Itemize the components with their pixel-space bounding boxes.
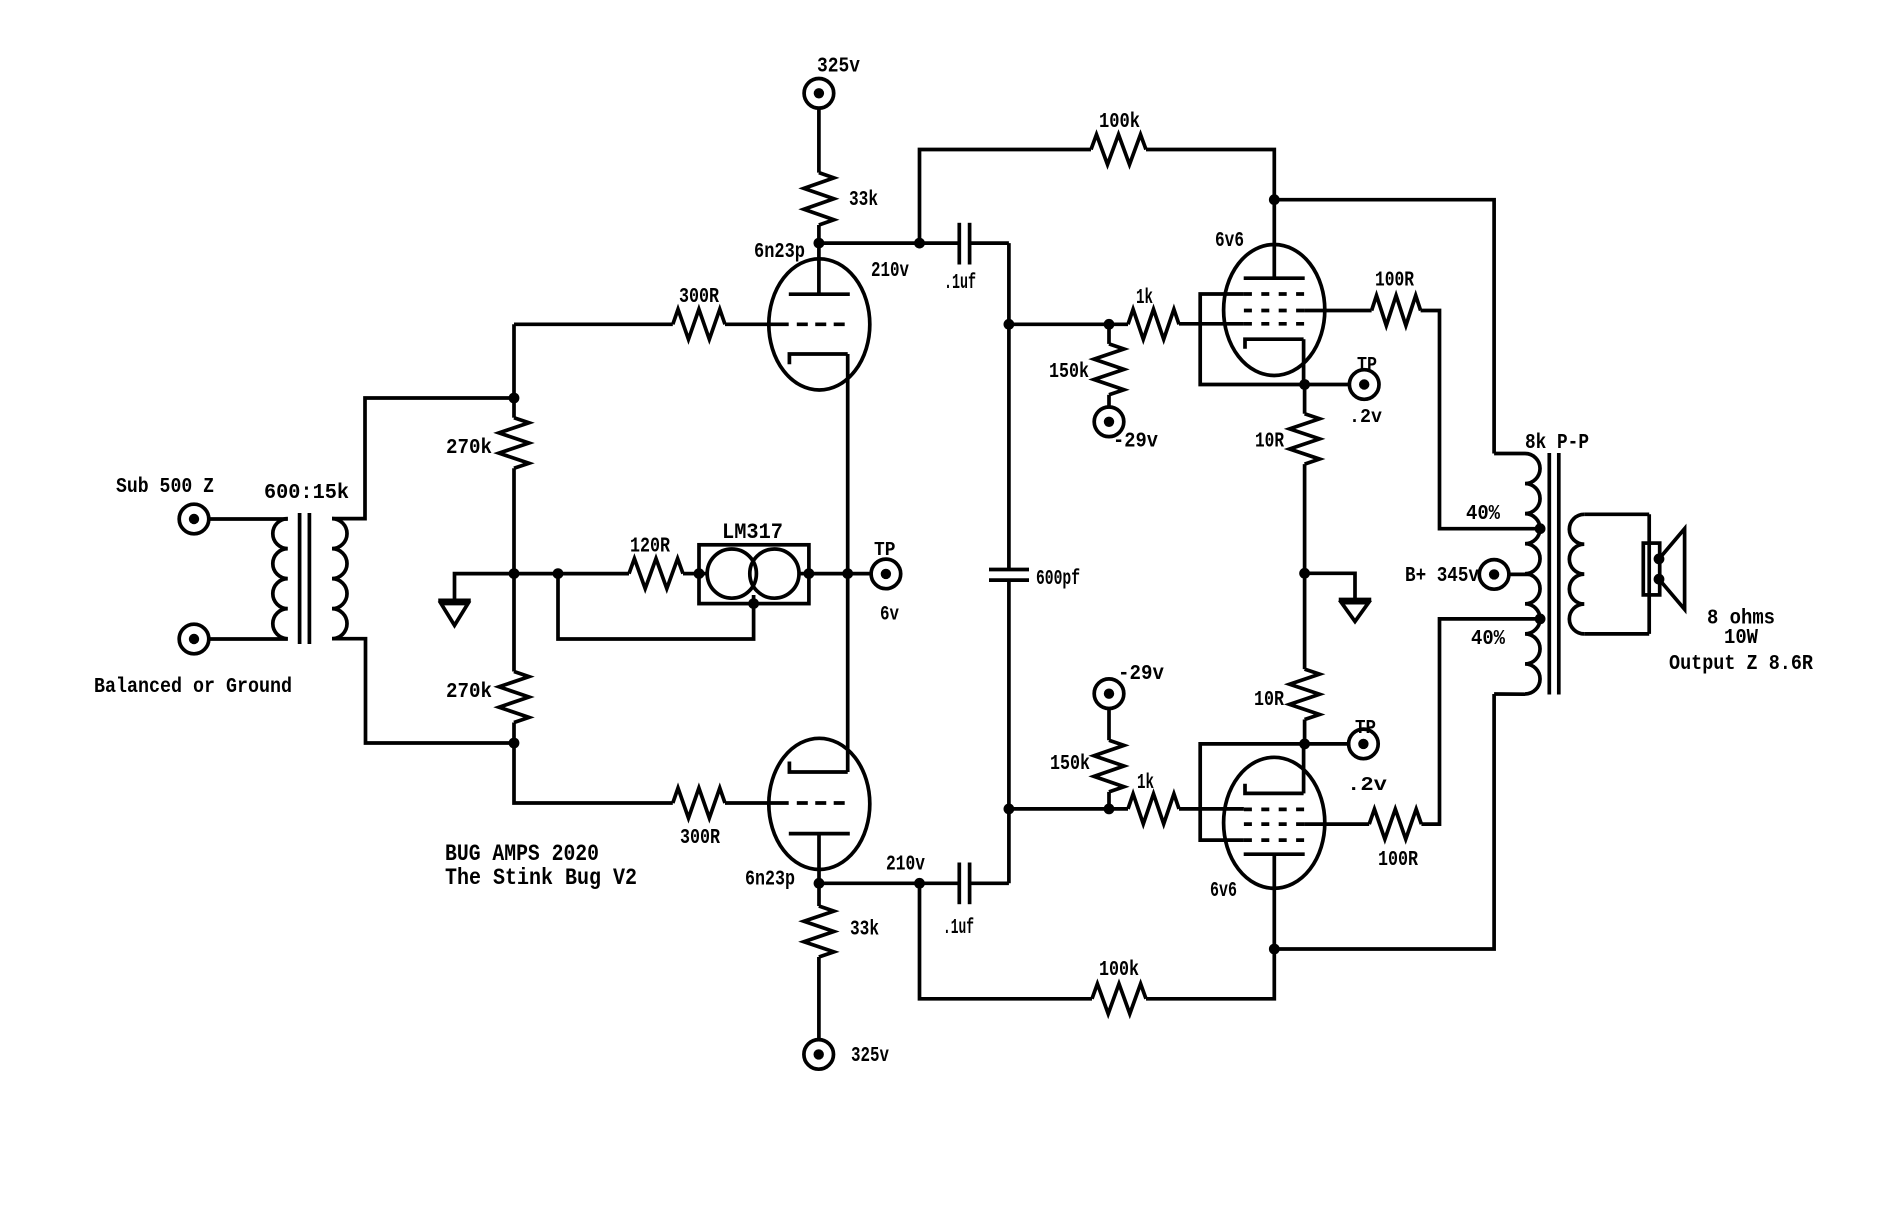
test point TP .2v (bottom) xyxy=(1349,729,1379,759)
tube V2 cathode xyxy=(789,762,847,773)
capacitor C1 .1uf (top) xyxy=(957,223,961,265)
svg-text:10R: 10R xyxy=(1255,431,1284,454)
tube V1 plate xyxy=(789,292,850,296)
wire C2 to vertical rail xyxy=(970,881,1009,885)
node A junction xyxy=(509,393,520,404)
resistor 300R (bottom) xyxy=(673,788,725,818)
node LM317 ADJ pin xyxy=(748,598,759,609)
resistor 270k (top) xyxy=(499,418,529,469)
svg-text:40%: 40% xyxy=(1466,503,1500,526)
svg-text:Sub 500 Z: Sub 500 Z xyxy=(116,476,214,499)
wire V2 plate to 33k node xyxy=(817,834,821,884)
transformer T2 primary bottom lead xyxy=(1494,692,1525,696)
speaker terminal dot top xyxy=(1654,554,1665,565)
wire cathode node to 10R xyxy=(1303,385,1307,414)
node LM317 output xyxy=(804,568,815,579)
svg-text:100k: 100k xyxy=(1099,111,1140,134)
wire cathodes common xyxy=(846,354,850,772)
wire cathode node to TP xyxy=(1305,383,1350,387)
svg-text:1k: 1k xyxy=(1136,287,1153,310)
wire V4 cathode up xyxy=(1302,744,1306,794)
tube V4 screen grid (dashed) xyxy=(1244,822,1304,826)
wire 300R to V2 grid xyxy=(725,801,789,805)
wire 33k top lead xyxy=(817,108,821,173)
bias terminal -29v (bottom) xyxy=(1094,679,1124,709)
tube V3 beam plates (dashed) xyxy=(1244,292,1304,296)
wire plate node to C2 xyxy=(819,881,959,885)
node V1 plate junction xyxy=(814,238,825,249)
wire V4 suppressor to cathode xyxy=(1200,744,1304,840)
svg-text:6v6: 6v6 xyxy=(1210,880,1237,903)
wire 1k to V3 grid xyxy=(1179,322,1244,326)
svg-text:210v: 210v xyxy=(886,854,925,877)
svg-text:325v: 325v xyxy=(817,56,860,79)
wire 120R lead xyxy=(629,559,683,589)
wire 300R top rail xyxy=(514,322,673,326)
wire 270k bottom to node B xyxy=(512,723,516,744)
wire 270k to mid rail xyxy=(512,468,516,573)
svg-text:-29v: -29v xyxy=(1118,663,1164,686)
tube V4 6v6 envelope (bottom) xyxy=(1224,757,1325,888)
svg-text:120R: 120R xyxy=(630,536,670,559)
wire secondary bottom rail xyxy=(1584,632,1649,636)
svg-text:10R: 10R xyxy=(1254,689,1284,712)
svg-text:150k: 150k xyxy=(1049,361,1089,384)
node 40% tap top xyxy=(1535,523,1546,534)
wire 100R to 40% tap (bottom) xyxy=(1421,619,1540,824)
test point TP 6v xyxy=(871,559,901,589)
svg-text:LM317: LM317 xyxy=(722,520,783,545)
tube V2 grid (dashed) xyxy=(797,801,845,805)
wire 150k lead down xyxy=(1107,792,1111,809)
speaker terminal dot bottom xyxy=(1654,574,1665,585)
resistor 150k (top) xyxy=(1094,344,1124,395)
wire plate node to OPT primary bottom xyxy=(1274,694,1494,949)
wire 150k to -29v terminal (bottom) xyxy=(1107,708,1111,740)
node B junction xyxy=(509,738,520,749)
power terminal 325v (top) xyxy=(804,79,834,109)
wire lower cathode node to TP xyxy=(1305,742,1349,746)
svg-text:270k: 270k xyxy=(446,437,492,460)
svg-text:.2v: .2v xyxy=(1347,774,1388,796)
svg-text:325v: 325v xyxy=(851,1045,889,1068)
resistor 10R (bottom) xyxy=(1290,669,1320,719)
speaker LS1 voice coil xyxy=(1643,543,1659,595)
svg-text:The Stink Bug V2: The Stink Bug V2 xyxy=(445,865,637,891)
wire plate node to C1 xyxy=(819,241,959,245)
wire T1 sec top to node A xyxy=(332,398,514,519)
power terminal B+ 345v xyxy=(1479,560,1509,590)
capacitor C3 600pf xyxy=(989,568,1029,572)
wire V3 screen to 100R xyxy=(1304,309,1372,313)
node ADJ loop junction xyxy=(553,568,564,579)
wire 300R to V1 grid xyxy=(725,322,789,326)
wire grid rail lower to 1k xyxy=(1009,807,1128,811)
node 150k junction (top) xyxy=(1104,319,1115,330)
svg-text:6n23p: 6n23p xyxy=(745,869,795,892)
wire secondary top rail xyxy=(1584,512,1649,516)
resistor 270k (bottom) xyxy=(499,672,529,723)
node V2 plate junction xyxy=(814,878,825,889)
wire C1 to vertical rail xyxy=(970,241,1009,245)
node cathode junction at LM317 rail xyxy=(842,568,853,579)
resistor 10R (top) xyxy=(1290,414,1320,464)
speaker LS1 cone xyxy=(1659,529,1685,610)
svg-text:33k: 33k xyxy=(849,189,878,212)
tube V1 grid (dashed) xyxy=(797,322,845,326)
svg-text:TP: TP xyxy=(1357,354,1377,376)
resistor 100R (bottom) xyxy=(1369,809,1421,839)
tube V3 6v6 envelope (top) xyxy=(1224,245,1325,376)
wire 1k to V4 grid xyxy=(1179,807,1244,811)
node 40% tap bottom xyxy=(1535,614,1546,625)
power terminal 325v (bottom) xyxy=(804,1040,834,1070)
svg-text:600:15k: 600:15k xyxy=(264,482,349,505)
node 100k branch junction (bottom) xyxy=(914,878,925,889)
wire 100k branch down xyxy=(920,883,1093,999)
regulator U1 internal leads xyxy=(699,572,707,576)
svg-text:100k: 100k xyxy=(1099,959,1139,982)
wire ADJ loop xyxy=(558,574,754,639)
svg-text:600pf: 600pf xyxy=(1036,568,1080,591)
transformer T2 primary coil (8k P-P) xyxy=(1525,454,1540,695)
svg-text:6v6: 6v6 xyxy=(1215,230,1244,253)
wire 120R to LM317 xyxy=(683,572,699,576)
svg-text:300R: 300R xyxy=(679,286,719,309)
wire J2 to T1 primary bottom xyxy=(209,637,288,641)
svg-text:.1uf: .1uf xyxy=(944,272,976,295)
node V3 plate junction xyxy=(1269,194,1280,205)
transformer T1 primary coil (600:15k) xyxy=(273,519,288,639)
node V3 cathode junction xyxy=(1299,379,1310,390)
transformer T1 core xyxy=(298,513,302,644)
wire 100k to plate node V4 xyxy=(1146,949,1274,999)
resistor 100k (bottom) xyxy=(1092,984,1146,1014)
resistor 100k (top) xyxy=(1091,135,1146,165)
resistor 33k (top) xyxy=(804,173,834,225)
svg-text:.2v: .2v xyxy=(1349,406,1383,428)
wire V4 plate down to feedback node xyxy=(1272,854,1276,949)
svg-text:.1uf: .1uf xyxy=(943,917,974,940)
wire 10R to ground node xyxy=(1303,464,1307,573)
regulator U1 LM317 box xyxy=(699,545,809,604)
svg-text:150k: 150k xyxy=(1050,753,1090,776)
wire vertical rail down to 600pf xyxy=(1007,243,1011,569)
transformer T1 secondary coil xyxy=(332,519,347,639)
bias terminal -29v (top) xyxy=(1094,407,1124,437)
ground symbol right xyxy=(1305,573,1355,599)
svg-text:210v: 210v xyxy=(871,260,909,283)
wire 150k to -29v terminal xyxy=(1107,395,1111,408)
node V4 cathode junction xyxy=(1299,739,1310,750)
svg-text:B+ 345v: B+ 345v xyxy=(1405,565,1479,588)
wire plate node to 33k xyxy=(817,883,821,906)
wire 150k lead up xyxy=(1107,324,1111,344)
svg-text:300R: 300R xyxy=(680,827,720,850)
test point TP .2v (top) xyxy=(1349,370,1379,400)
wire 100k to plate node V3 xyxy=(1146,150,1274,200)
tube V2 plate xyxy=(789,832,850,836)
node V4 plate junction xyxy=(1269,944,1280,955)
resistor 100R (top) xyxy=(1372,296,1421,326)
wire node A to 270k top xyxy=(512,398,516,418)
svg-text:10W: 10W xyxy=(1724,627,1758,650)
node mid-left junction xyxy=(509,568,520,579)
wire 10R to lower cathode node xyxy=(1303,720,1307,744)
ground symbol left xyxy=(455,574,515,601)
tube V4 cathode xyxy=(1245,784,1304,794)
resistor 150k (bottom) xyxy=(1094,740,1124,792)
transformer T2 primary top lead xyxy=(1494,452,1525,456)
svg-text:1k: 1k xyxy=(1137,772,1154,795)
tube V2 6n23p envelope (bottom) xyxy=(769,738,870,869)
resistor 33k (bottom) xyxy=(804,906,834,957)
wire LM317 out to TP xyxy=(809,572,872,576)
svg-text:Balanced or Ground: Balanced or Ground xyxy=(94,676,292,699)
resistor 1k (bottom) xyxy=(1128,794,1179,824)
wire 33k to terminal xyxy=(817,957,821,1040)
wire vertical rail 600pf to C2 xyxy=(1007,580,1011,883)
svg-text:TP: TP xyxy=(874,539,896,561)
node grid rail junction (top) xyxy=(1004,319,1015,330)
input terminal J2 bottom xyxy=(179,624,209,654)
svg-text:100R: 100R xyxy=(1375,270,1414,293)
svg-text:6n23p: 6n23p xyxy=(754,241,805,264)
node LM317 input xyxy=(694,568,705,579)
tube V4 control grid (dashed) xyxy=(1244,808,1304,812)
wire grid rail to 1k xyxy=(1009,322,1128,326)
wire mid rail to 120R xyxy=(514,572,629,576)
tube V3 control grid (dashed) xyxy=(1244,322,1304,326)
tube V1 cathode xyxy=(789,354,847,364)
wire ground node to 10R bottom xyxy=(1303,573,1307,669)
wire plate node to OPT primary top xyxy=(1274,200,1494,454)
wire secondary right side xyxy=(1647,514,1651,634)
wire T1 sec bottom to node B xyxy=(332,639,514,743)
tube V3 screen grid (dashed) xyxy=(1244,309,1304,313)
wire V3 plate lead xyxy=(1272,200,1276,279)
node 100k branch junction xyxy=(914,238,925,249)
node 150k junction (bottom) xyxy=(1104,804,1115,815)
resistor 1k (top) xyxy=(1128,309,1179,339)
svg-text:33k: 33k xyxy=(850,919,879,942)
tube V4 plate xyxy=(1244,852,1305,856)
wire 270k bottom section xyxy=(512,574,516,672)
tube V3 plate xyxy=(1244,276,1305,280)
svg-text:270k: 270k xyxy=(446,681,492,704)
input terminal J1 top (Sub 500 Z) xyxy=(179,504,209,534)
svg-text:8k P-P: 8k P-P xyxy=(1525,432,1589,455)
tube V3 cathode xyxy=(1245,339,1304,349)
wire V3 cathode down xyxy=(1302,339,1306,384)
node ground junction right xyxy=(1299,568,1310,579)
wire node B down to lower 300R rail xyxy=(514,743,673,803)
regulator U1 circles xyxy=(707,549,756,598)
svg-text:TP: TP xyxy=(1355,717,1376,739)
tube V4 beam plates (dashed) xyxy=(1244,838,1304,842)
wire 100R to 40% tap (top) xyxy=(1421,311,1541,529)
svg-text:100R: 100R xyxy=(1378,849,1418,872)
wire node A up to 300R rail xyxy=(512,324,516,398)
wire 100k branch up xyxy=(920,150,1092,244)
transformer T2 secondary coil xyxy=(1569,514,1584,634)
wire J1 to T1 primary top xyxy=(209,517,288,521)
svg-text:40%: 40% xyxy=(1471,628,1505,651)
svg-text:6v: 6v xyxy=(880,604,899,627)
svg-text:-29v: -29v xyxy=(1113,431,1158,454)
node grid rail junction (bottom) xyxy=(1004,804,1015,815)
wire 33k to plate node xyxy=(817,225,821,243)
wire B+ to center tap xyxy=(1509,573,1529,577)
capacitor C2 .1uf (bottom) xyxy=(957,863,961,905)
svg-text:BUG AMPS 2020: BUG AMPS 2020 xyxy=(445,841,599,867)
wire V1 plate to 33k node xyxy=(817,243,821,294)
wire V4 screen to 100R xyxy=(1304,822,1369,826)
resistor 300R (top) xyxy=(673,309,725,339)
tube V1 6n23p envelope (top) xyxy=(769,259,870,390)
svg-text:Output Z 8.6R: Output Z 8.6R xyxy=(1669,653,1813,676)
wire V3 suppressor to cathode xyxy=(1200,294,1304,385)
transformer T2 core xyxy=(1547,453,1551,695)
